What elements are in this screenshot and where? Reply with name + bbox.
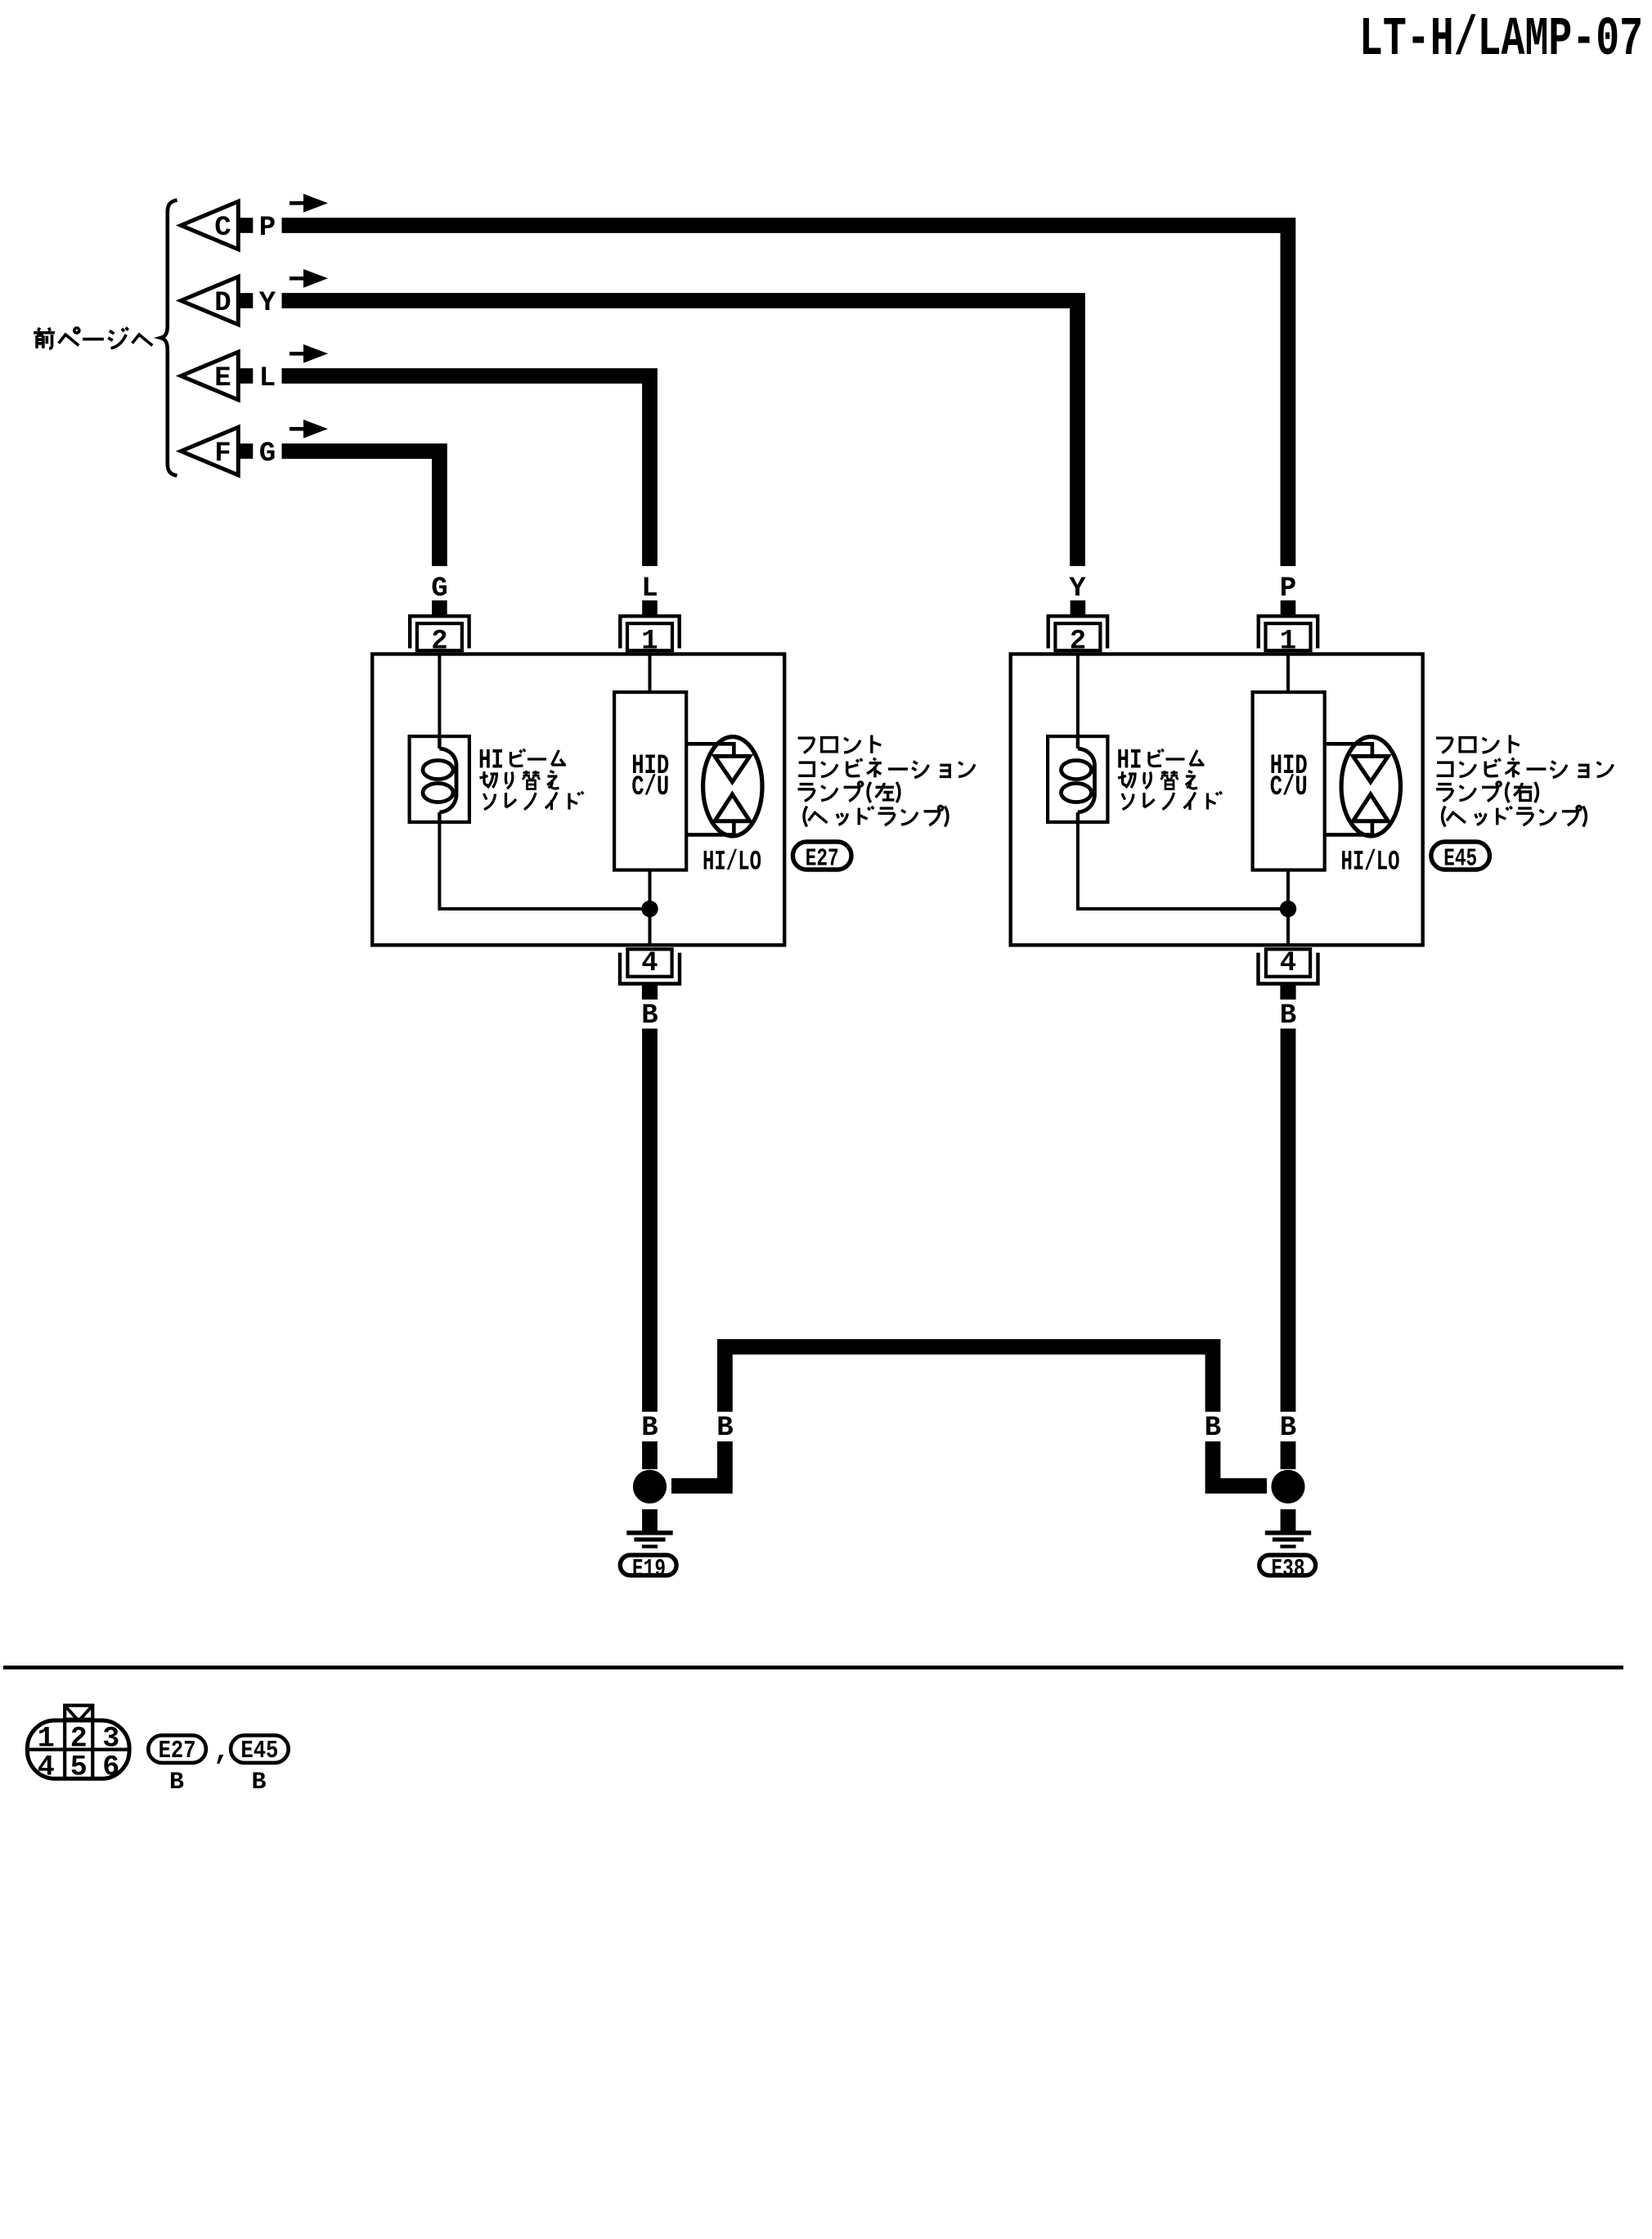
svg-text:E45: E45 <box>240 1737 278 1765</box>
label "front combination lamp (RH) (headlamp)" (JP) <box>1436 735 1613 827</box>
HI/LO headlamp bulb (left) <box>688 737 762 836</box>
svg-text:L: L <box>641 573 658 605</box>
label "front combination lamp (LH) (headlamp)" (JP) <box>798 735 975 827</box>
svg-text:5: 5 <box>70 1751 88 1784</box>
connector pin 2 (left unit, top) <box>410 600 469 650</box>
HID C/U box (left) <box>614 692 686 870</box>
wire B to right ground junction <box>1281 1441 1296 1469</box>
wire Y from connector D to right lamp pin 2 <box>282 301 1078 567</box>
wire HID C/U to junction (right) <box>1286 870 1290 909</box>
wire solenoid to junction (right) <box>1078 822 1288 909</box>
connector pin 1 (right unit, top) <box>1259 600 1318 650</box>
svg-text:2: 2 <box>431 627 447 658</box>
svg-text:G: G <box>431 573 447 605</box>
svg-text:B: B <box>169 1769 184 1796</box>
connector designator E27 (legend) <box>148 1735 206 1763</box>
svg-text:B: B <box>251 1769 266 1796</box>
off-page connector C <box>181 201 238 250</box>
svg-text:1: 1 <box>641 627 658 658</box>
connector pin 4 (right unit, bottom) <box>1259 949 1318 1000</box>
ground symbol E38 <box>1265 1531 1311 1549</box>
direction arrow row E <box>290 344 328 363</box>
unit box: front combination lamp RH (E45) <box>1011 654 1423 946</box>
solenoid box (right) <box>1048 736 1107 822</box>
brace bracketing off-page connectors <box>161 200 177 476</box>
svg-text:HI: HI <box>478 746 504 777</box>
svg-text:HI/LO: HI/LO <box>703 847 761 879</box>
ground designator E19 <box>620 1555 676 1576</box>
solenoid coil L1 (left) <box>423 735 456 824</box>
off-page connector D <box>181 277 238 325</box>
svg-text:Y: Y <box>259 288 276 319</box>
svg-text:HI/LO: HI/LO <box>1341 847 1400 879</box>
wire pin1 to HID C/U (right) <box>1286 654 1290 692</box>
svg-text:4: 4 <box>1280 948 1296 979</box>
ground junction node (right) <box>1271 1470 1304 1504</box>
svg-text:G: G <box>259 438 276 470</box>
connector face key tab <box>65 1706 92 1720</box>
svg-text:HI: HI <box>1117 746 1142 777</box>
wire B from left pin 4 down <box>642 1028 658 1411</box>
wire B to left ground junction <box>642 1441 658 1469</box>
wire junction to pin 4 (left) <box>649 909 652 946</box>
svg-text:B: B <box>641 1413 658 1444</box>
connector designator E45 (right unit) <box>1431 842 1490 870</box>
off-page connector F <box>181 427 238 475</box>
svg-text:B: B <box>641 1000 658 1032</box>
label "HI beam switching solenoid" (left, JP) <box>478 746 583 811</box>
svg-text:P: P <box>259 213 276 244</box>
svg-text:E38: E38 <box>1272 1555 1305 1584</box>
svg-text:2: 2 <box>70 1722 88 1755</box>
svg-text:1: 1 <box>1280 627 1296 658</box>
wire G from connector F to left lamp pin 2 <box>282 452 440 567</box>
svg-text:E: E <box>214 363 231 394</box>
node stub F <box>238 443 253 459</box>
svg-text:3: 3 <box>102 1722 119 1755</box>
wire pin2 to solenoid (left) <box>438 654 441 736</box>
ground designator E38 <box>1259 1555 1316 1576</box>
wire pin1 to HID C/U (left) <box>649 654 652 692</box>
svg-text:LT-H/LAMP-07: LT-H/LAMP-07 <box>1359 9 1643 71</box>
connector face grid <box>26 1720 131 1780</box>
svg-text:E27: E27 <box>806 845 839 874</box>
connector designator E27 (left unit) <box>792 842 851 870</box>
direction arrow row D <box>290 269 328 288</box>
wire HID C/U to junction (left) <box>649 870 652 909</box>
svg-text:B: B <box>1205 1413 1221 1444</box>
connector pin 2 (right unit, top) <box>1048 600 1107 650</box>
label "HI beam switching solenoid" (right, JP) <box>1117 746 1222 811</box>
unit box: front combination lamp LH (E27) <box>372 654 784 946</box>
bridge leg to right ground junction <box>1213 1441 1267 1486</box>
connector pin 4 (left unit, bottom) <box>620 949 680 1000</box>
ground symbol E19 <box>626 1531 672 1549</box>
svg-text:C: C <box>214 213 231 244</box>
HID C/U box (right) <box>1253 692 1325 870</box>
svg-text:6: 6 <box>102 1751 119 1784</box>
bridge wire between ground junctions <box>725 1347 1213 1411</box>
node stub E <box>238 368 253 384</box>
wire B from right pin 4 down <box>1281 1028 1296 1411</box>
svg-text:D: D <box>214 288 231 319</box>
junction node (left unit) <box>641 901 658 917</box>
solenoid coil L2 (right) <box>1062 735 1095 824</box>
svg-text:E27: E27 <box>159 1737 196 1765</box>
ground junction node (left) <box>633 1470 667 1504</box>
wire solenoid to junction (left) <box>439 822 649 909</box>
wire L from connector E to left lamp pin 1 <box>282 376 650 567</box>
wire junction to left ground <box>642 1509 658 1531</box>
svg-text:C/U: C/U <box>631 772 669 803</box>
direction arrow row C <box>290 194 328 213</box>
solenoid box (left) <box>410 736 469 822</box>
node stub D <box>238 293 253 308</box>
svg-text:B: B <box>1280 1000 1296 1032</box>
svg-text:4: 4 <box>641 948 658 979</box>
node stub C <box>238 218 253 233</box>
bridge leg to left ground junction <box>671 1441 725 1486</box>
off-page connector E <box>181 352 238 400</box>
direction arrow row F <box>290 420 328 438</box>
svg-text:B: B <box>716 1413 733 1444</box>
svg-text:L: L <box>259 363 276 394</box>
svg-text:4: 4 <box>38 1751 55 1784</box>
footer separator rule <box>3 1666 1623 1670</box>
HI/LO headlamp bulb (right) <box>1327 737 1401 836</box>
wire pin2 to solenoid (right) <box>1076 654 1080 736</box>
svg-text:F: F <box>214 438 231 470</box>
junction node (right unit) <box>1280 901 1296 917</box>
svg-text:E45: E45 <box>1443 845 1477 874</box>
label "to previous page" (JP: mae page he) <box>34 327 152 348</box>
svg-text:E19: E19 <box>632 1555 666 1584</box>
svg-text:P: P <box>1280 573 1296 605</box>
svg-text:B: B <box>1280 1413 1296 1444</box>
connector face housing (6-pin) <box>27 1720 129 1778</box>
svg-text:C/U: C/U <box>1270 772 1308 803</box>
connector pin 1 (left unit, top) <box>620 600 679 650</box>
svg-text:Y: Y <box>1069 573 1086 605</box>
connector designator E45 (legend) <box>231 1735 289 1763</box>
svg-text:2: 2 <box>1070 627 1086 658</box>
wire P from connector C to right lamp pin 1 <box>282 226 1288 567</box>
svg-text:,: , <box>213 1737 230 1768</box>
wire junction to pin 4 (right) <box>1286 909 1290 946</box>
svg-text:1: 1 <box>38 1722 55 1755</box>
wire junction to right ground <box>1281 1509 1296 1531</box>
